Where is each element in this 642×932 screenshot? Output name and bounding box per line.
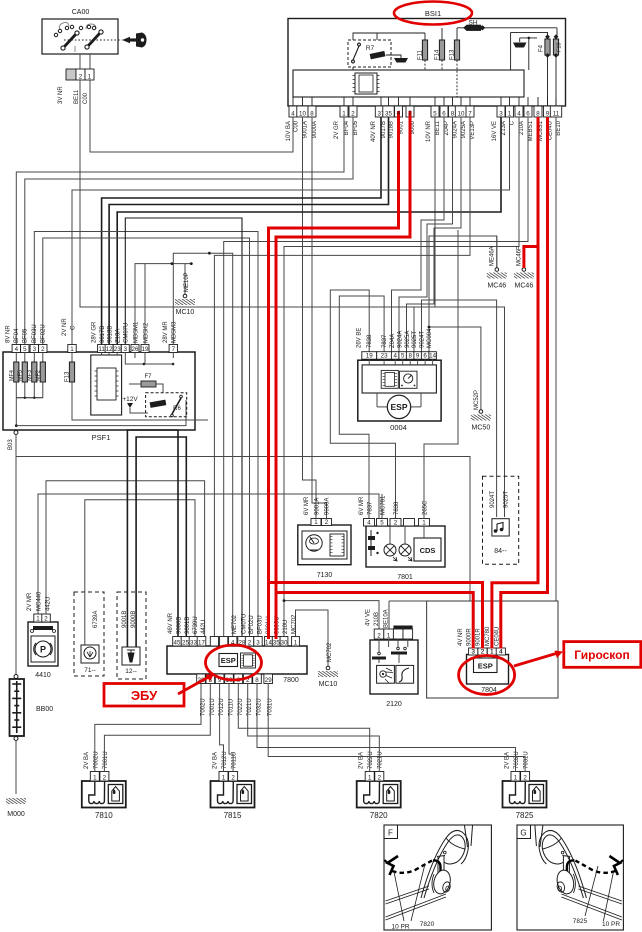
photo G dashed cable <box>575 861 615 873</box>
svg-text:1: 1 <box>490 648 494 655</box>
wire 7011U <box>229 684 233 772</box>
svg-text:9001A: 9001A <box>303 121 309 138</box>
svg-text:ESP: ESP <box>390 402 407 412</box>
svg-text:9001B: 9001B <box>122 611 128 628</box>
wire 9024A to cluster <box>399 117 453 352</box>
svg-text:M000: M000 <box>7 811 25 818</box>
0004 pin stubs <box>369 359 432 365</box>
svg-text:2V GR: 2V GR <box>334 120 340 139</box>
svg-text:MC52P: MC52P <box>474 390 480 410</box>
svg-text:7130: 7130 <box>317 572 333 579</box>
svg-text:MC10: MC10 <box>319 681 338 688</box>
svg-text:R7: R7 <box>366 45 375 52</box>
photo box F <box>384 825 491 930</box>
wire MC004 <box>429 236 497 352</box>
wire BB00 to M000 <box>15 741 17 795</box>
svg-text:MF2: MF2 <box>35 370 41 381</box>
svg-text:Z13A: Z13A <box>501 121 507 135</box>
red circle ESP at 7800 <box>206 645 262 680</box>
svg-text:F13: F13 <box>449 49 455 60</box>
4410 pins <box>34 614 43 622</box>
svg-text:14: 14 <box>429 353 436 360</box>
svg-text:6739U: 6739U <box>193 616 199 634</box>
wire 7032U <box>257 684 516 772</box>
svg-text:45: 45 <box>174 639 181 646</box>
svg-text:MBSK2: MBSK2 <box>144 322 150 343</box>
wire 9001B <box>136 437 186 647</box>
svg-text:BF03U: BF03U <box>258 615 264 634</box>
BSI1 pin stubs <box>293 97 556 106</box>
wire 9000A <box>312 117 327 519</box>
wire CA00 to pins <box>79 54 81 69</box>
photo F sill lines <box>386 886 447 920</box>
svg-text:F11: F11 <box>417 49 423 60</box>
svg-text:9018B: 9018B <box>108 326 114 343</box>
svg-text:28V GR: 28V GR <box>92 321 98 343</box>
svg-text:3: 3 <box>33 346 37 353</box>
svg-text:F: F <box>388 829 393 838</box>
7800 top pins <box>173 637 182 647</box>
svg-text:MC46P: MC46P <box>517 246 523 266</box>
svg-text:Z04P: Z04P <box>444 121 450 135</box>
0004 inner box <box>362 365 436 393</box>
svg-text:MBSM3: MBSM3 <box>172 321 178 343</box>
svg-text:4: 4 <box>367 519 371 526</box>
svg-text:23: 23 <box>381 353 388 360</box>
svg-text:71--: 71-- <box>84 667 96 674</box>
photo G sensor cable <box>567 860 575 873</box>
svg-text:5: 5 <box>433 110 437 117</box>
svg-text:C00: C00 <box>294 120 300 132</box>
wire 7002U <box>95 684 201 772</box>
svg-text:1: 1 <box>294 639 298 646</box>
7800 IC icon <box>241 653 256 668</box>
svg-text:9017B: 9017B <box>100 326 106 343</box>
svg-text:9025A: 9025A <box>461 121 467 138</box>
wire BF04 <box>16 117 344 345</box>
wire 7001U <box>104 684 210 772</box>
wire 265C <box>424 230 458 519</box>
wire VE13P <box>214 117 470 637</box>
svg-text:2: 2 <box>377 632 381 639</box>
svg-text:1: 1 <box>342 110 346 117</box>
svg-text:10V NR: 10V NR <box>426 120 432 142</box>
svg-text:MC440: MC440 <box>37 591 43 611</box>
2120 pin bar <box>393 626 412 629</box>
7801 lamp 1 <box>384 544 396 556</box>
svg-text:2: 2 <box>103 774 107 781</box>
2120 switch contacts <box>378 639 380 652</box>
BSI1 connector pins group C <box>375 106 386 117</box>
svg-text:9001R: 9001R <box>476 628 482 646</box>
svg-text:29: 29 <box>265 677 272 684</box>
siren box 84 <box>483 476 519 564</box>
svg-text:2: 2 <box>79 73 83 80</box>
photo F frame zigzag <box>388 856 399 875</box>
svg-text:1: 1 <box>88 73 92 80</box>
svg-text:2: 2 <box>394 519 398 526</box>
red CAN wire 9001 <box>269 111 399 639</box>
svg-text:25: 25 <box>182 639 189 646</box>
svg-text:Z04A: Z04A <box>390 334 396 348</box>
svg-text:MC781: MC781 <box>381 495 387 515</box>
svg-text:7012U: 7012U <box>222 751 228 769</box>
svg-text:2V BA: 2V BA <box>213 752 219 769</box>
wire B03 to BB00 <box>15 435 17 675</box>
svg-text:C: C <box>510 120 516 125</box>
svg-text:BF05: BF05 <box>353 120 359 135</box>
photo G frame zigzag <box>609 856 620 875</box>
svg-text:CA00: CA00 <box>72 9 90 16</box>
wire 9000B <box>127 430 178 647</box>
wire BE10 <box>555 117 557 601</box>
7801 lamp 2 <box>399 544 411 556</box>
svg-text:MC702: MC702 <box>292 614 298 634</box>
ground M000 <box>6 798 26 804</box>
svg-text:MF4: MF4 <box>9 370 15 381</box>
svg-text:BF04: BF04 <box>344 120 350 135</box>
svg-text:23: 23 <box>114 346 121 353</box>
svg-text:16V VE: 16V VE <box>492 121 498 141</box>
wire C00 <box>90 80 293 152</box>
switch unit 2120 <box>370 640 418 694</box>
svg-text:BE11: BE11 <box>74 89 80 104</box>
svg-text:9: 9 <box>416 353 420 360</box>
svg-text:11: 11 <box>98 346 105 353</box>
svg-text:F7: F7 <box>144 374 152 380</box>
wire 7031U <box>268 684 525 772</box>
7804 pins <box>469 648 478 655</box>
svg-text:10 PR: 10 PR <box>602 921 620 928</box>
7804 ESP box <box>474 658 498 673</box>
wire MC440 <box>38 494 379 614</box>
svg-text:10V BA: 10V BA <box>286 121 292 141</box>
wire 442U <box>46 481 205 637</box>
svg-text:7820: 7820 <box>420 921 435 928</box>
svg-text:MEBS1: MEBS1 <box>528 120 534 141</box>
svg-text:9000B: 9000B <box>131 611 137 628</box>
svg-text:BF02U: BF02U <box>41 324 47 343</box>
fuse box PSF1 <box>3 352 195 430</box>
svg-text:3V NR: 3V NR <box>58 86 64 104</box>
svg-text:F14: F14 <box>434 49 440 60</box>
svg-text:CM07U: CM07U <box>124 323 130 343</box>
wire BF03U <box>34 232 258 637</box>
red circle around 7804 <box>459 656 515 695</box>
svg-text:1: 1 <box>508 110 512 117</box>
wire MEBS1 <box>224 117 528 637</box>
wire 9018B <box>109 117 388 345</box>
svg-text:9000A: 9000A <box>325 498 331 515</box>
wheel sensor 7815 <box>211 781 255 808</box>
svg-text:BSI1: BSI1 <box>425 9 441 18</box>
dashed unit 6739A <box>74 592 104 676</box>
dashed unit 12 <box>117 592 146 679</box>
svg-text:10: 10 <box>299 110 306 117</box>
svg-text:7838: 7838 <box>367 334 373 348</box>
red bus 9000 to 7804 pin 3 <box>276 593 473 649</box>
svg-text:F13: F13 <box>64 371 70 382</box>
svg-text:+12V: +12V <box>122 396 138 403</box>
fuse F11 <box>422 40 427 60</box>
svg-text:4: 4 <box>517 110 521 117</box>
svg-text:4: 4 <box>393 353 397 360</box>
svg-text:4: 4 <box>499 648 503 655</box>
7130 pins <box>311 519 321 526</box>
svg-text:3: 3 <box>256 639 260 646</box>
svg-text:Z13A: Z13A <box>116 329 122 343</box>
svg-text:5: 5 <box>401 353 405 360</box>
ground MC46 left ME46A <box>496 236 498 268</box>
svg-text:2: 2 <box>44 615 48 622</box>
svg-text:3: 3 <box>499 110 503 117</box>
svg-text:2V BA: 2V BA <box>505 752 511 769</box>
0004 IC icon <box>381 370 398 388</box>
wire 7021U <box>248 684 380 772</box>
svg-text:9001A: 9001A <box>315 498 321 515</box>
wire 210B branch <box>284 601 379 629</box>
svg-text:MC780: MC780 <box>485 626 491 646</box>
svg-text:MBSM1: MBSM1 <box>134 321 140 343</box>
fuse F13 PSF1 <box>71 353 73 363</box>
svg-text:1: 1 <box>314 519 318 526</box>
svg-text:MC10: MC10 <box>176 309 195 316</box>
wire ME702 <box>209 253 232 636</box>
CA00 contacts <box>59 22 96 52</box>
svg-text:6: 6 <box>423 353 427 360</box>
svg-text:8: 8 <box>255 677 259 684</box>
svg-text:C: C <box>71 325 77 330</box>
BSI internal node wiring right <box>556 28 558 37</box>
wire B03 branch to 84 <box>16 457 470 602</box>
red callout box gyroscope <box>564 642 641 668</box>
svg-text:ME46A: ME46A <box>490 246 496 266</box>
wire BE10A <box>389 600 427 602</box>
svg-text:9024T: 9024T <box>420 331 426 348</box>
0004 gauge icon <box>400 371 418 388</box>
svg-text:BB00: BB00 <box>36 706 53 713</box>
svg-text:ME10P: ME10P <box>184 272 190 292</box>
junction MC004/MC52P <box>428 326 431 329</box>
svg-text:7032U: 7032U <box>514 751 520 769</box>
red CAN wire 9000 <box>276 111 410 639</box>
fuse F4 <box>545 39 550 55</box>
PSF1 IC box <box>91 355 122 415</box>
svg-text:G: G <box>520 829 526 838</box>
wire 9025A to cluster <box>407 117 462 352</box>
svg-text:4V VE: 4V VE <box>366 609 372 626</box>
photo F sensor bracket <box>437 856 445 876</box>
svg-text:1: 1 <box>93 774 97 781</box>
2120 eye icon <box>377 665 395 683</box>
svg-text:2120: 2120 <box>386 701 402 708</box>
svg-text:2: 2 <box>325 519 329 526</box>
instrument cluster 0004 <box>358 360 441 421</box>
red wire CE04U <box>501 117 548 649</box>
svg-text:4: 4 <box>397 110 401 117</box>
photo box G <box>517 825 623 930</box>
svg-text:7820: 7820 <box>370 811 388 820</box>
fuse F13 <box>454 40 459 60</box>
wire MC781 stub <box>381 494 383 519</box>
svg-text:210A: 210A <box>519 121 525 135</box>
gyro sensor 7804 <box>467 655 509 685</box>
BSI1 connector pins group D <box>431 106 439 117</box>
svg-text:7810: 7810 <box>95 811 113 820</box>
svg-text:MC50: MC50 <box>472 425 491 432</box>
7130 inner <box>302 531 347 559</box>
svg-text:26V BE: 26V BE <box>357 328 363 348</box>
svg-text:9024A: 9024A <box>453 121 459 138</box>
svg-text:BE10A: BE10A <box>384 609 390 628</box>
svg-text:5: 5 <box>380 519 384 526</box>
relay R6 dashed <box>146 393 187 417</box>
svg-text:ESP: ESP <box>478 662 493 671</box>
wheel sensor 7825 <box>503 781 547 808</box>
svg-text:1: 1 <box>222 774 226 781</box>
svg-text:1: 1 <box>368 774 372 781</box>
svg-text:14: 14 <box>265 639 272 646</box>
svg-text:10: 10 <box>458 110 465 117</box>
wire Z13A <box>117 117 501 345</box>
BSI1 connector pins group E <box>497 106 505 117</box>
BSI1 internal IC <box>355 73 377 94</box>
svg-text:2: 2 <box>523 774 527 781</box>
svg-text:11: 11 <box>553 110 560 117</box>
unit 7801 <box>366 526 445 567</box>
svg-text:7837: 7837 <box>368 501 374 515</box>
wheel sensor 7810 <box>82 781 126 808</box>
svg-text:BF05: BF05 <box>23 328 29 343</box>
svg-text:210U: 210U <box>283 620 289 634</box>
PSF1 internal bus <box>16 400 186 426</box>
svg-text:6: 6 <box>442 110 446 117</box>
svg-text:2V BA: 2V BA <box>359 752 365 769</box>
wire 9025T <box>414 307 505 517</box>
BSI1 internal connector bar <box>293 70 524 97</box>
BSI1 body control unit <box>288 19 566 107</box>
red wire MC8S1 to MC780 <box>492 117 538 649</box>
svg-text:9000A: 9000A <box>312 121 318 138</box>
svg-text:9018B: 9018B <box>389 121 395 138</box>
svg-text:2: 2 <box>378 774 382 781</box>
svg-text:P: P <box>40 645 46 655</box>
svg-text:4V NR: 4V NR <box>458 628 464 646</box>
svg-text:12--: 12-- <box>125 668 137 675</box>
wire 7837 <box>339 296 384 519</box>
7800 bottom pins <box>197 674 206 684</box>
svg-text:26: 26 <box>132 346 139 353</box>
svg-text:9025A: 9025A <box>405 331 411 348</box>
wheel sensor 7820 <box>357 781 401 808</box>
photo F fork <box>465 826 473 848</box>
red arrow to ESP circle <box>178 677 210 695</box>
svg-text:9000R: 9000R <box>467 628 473 646</box>
svg-text:8: 8 <box>536 110 540 117</box>
svg-text:46V NR: 46V NR <box>168 612 174 634</box>
R7 wiring <box>353 33 425 40</box>
svg-text:84--: 84-- <box>494 548 507 555</box>
svg-text:1: 1 <box>514 774 518 781</box>
svg-text:9017B: 9017B <box>381 121 387 138</box>
svg-text:3: 3 <box>124 346 128 353</box>
ESP ECU 7800 <box>167 646 307 674</box>
svg-text:7801: 7801 <box>397 574 413 581</box>
wire MC702 to ground <box>296 610 329 667</box>
svg-text:MC46: MC46 <box>487 283 506 290</box>
svg-text:BE11: BE11 <box>435 120 441 135</box>
2120 hook icon <box>396 665 414 683</box>
svg-text:ЭБУ: ЭБУ <box>131 688 158 703</box>
svg-text:7: 7 <box>172 346 176 353</box>
svg-text:B03: B03 <box>8 439 14 450</box>
ground MC10 top <box>183 294 187 298</box>
svg-text:MF3: MF3 <box>27 370 33 381</box>
svg-text:17: 17 <box>198 639 205 646</box>
photo F wheel arch <box>421 830 468 898</box>
PSF1 pins <box>12 345 20 353</box>
svg-text:ME702: ME702 <box>232 614 238 634</box>
svg-text:6V MR: 6V MR <box>304 496 310 515</box>
svg-text:7815: 7815 <box>224 811 242 820</box>
svg-text:Гироскоп: Гироскоп <box>574 648 629 662</box>
wire MC52P <box>429 327 481 410</box>
svg-text:VE13P: VE13P <box>470 121 476 140</box>
svg-text:7021U: 7021U <box>378 751 384 769</box>
svg-text:7: 7 <box>468 110 472 117</box>
svg-text:2: 2 <box>41 346 45 353</box>
wire C <box>72 117 510 345</box>
svg-text:2: 2 <box>248 639 252 646</box>
svg-text:1: 1 <box>387 632 391 639</box>
red branch to ground MC46P <box>524 247 538 269</box>
7800 ESP label box <box>219 654 238 667</box>
svg-text:40V NR: 40V NR <box>371 120 377 142</box>
svg-text:1: 1 <box>70 346 74 353</box>
svg-text:7022U: 7022U <box>368 751 374 769</box>
svg-text:7825: 7825 <box>516 811 534 820</box>
12 lighter icon <box>122 647 140 665</box>
svg-text:6739A: 6739A <box>93 611 99 628</box>
svg-text:442U: 442U <box>201 620 207 634</box>
svg-text:30: 30 <box>281 639 288 646</box>
R7 switch contact <box>352 43 361 63</box>
svg-text:8: 8 <box>408 353 412 360</box>
svg-text:MC702: MC702 <box>327 642 333 662</box>
svg-text:10 PR: 10 PR <box>391 924 409 931</box>
2120 pins <box>374 629 384 639</box>
svg-text:6: 6 <box>526 110 530 117</box>
svg-text:4: 4 <box>291 110 295 117</box>
BSI1 label circled <box>394 2 472 25</box>
4410 connector detail <box>33 626 53 630</box>
BSI1 connector pins group B <box>340 106 348 117</box>
svg-text:8V NR: 8V NR <box>6 325 12 343</box>
svg-text:BF04: BF04 <box>14 328 20 343</box>
wire 9001A <box>303 117 317 519</box>
svg-text:4: 4 <box>15 346 19 353</box>
svg-text:33: 33 <box>190 639 197 646</box>
R7 coil <box>370 51 386 59</box>
svg-text:19: 19 <box>366 353 373 360</box>
red arrow to gyro box <box>514 654 556 667</box>
svg-text:8: 8 <box>310 110 314 117</box>
svg-text:3: 3 <box>471 648 475 655</box>
connector CA00 pins 2 1 <box>66 69 76 80</box>
wire BF05 <box>25 117 353 345</box>
photo G callout lines <box>603 872 613 921</box>
CA00 key symbol <box>122 37 130 43</box>
